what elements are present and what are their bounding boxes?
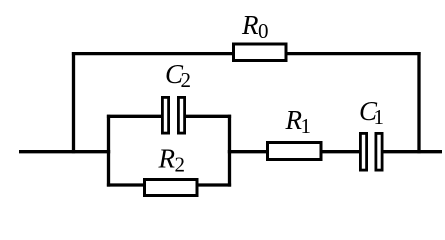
resistor R0 (box in top branch) [234, 44, 287, 61]
wire: main horizontal from C1 right plate to right terminal [382, 150, 442, 153]
wire: main horizontal lead from left terminal to inner parallel block [19, 150, 110, 153]
wire: inner loop left vertical [107, 115, 110, 187]
resistor R2 (box in inner loop bottom branch) [145, 180, 198, 196]
label C1 [359, 96, 384, 129]
label C2 [165, 59, 191, 92]
wire: inner loop top branch left segment into C2 [107, 115, 164, 118]
resistor R1 (box in main line) [268, 143, 322, 160]
label R0 [241, 10, 269, 43]
wire: main horizontal from inner block to C1 left plate (through R1) [228, 150, 361, 153]
capacitor C1 (two hollow plates in main line) [360, 133, 382, 170]
svg-text:R1: R1 [285, 105, 312, 138]
label R2 [158, 144, 186, 177]
wire: outer loop left vertical riser [72, 52, 75, 153]
svg-text:R0: R0 [241, 10, 269, 43]
svg-text:C1: C1 [359, 96, 384, 129]
wire: outer loop right vertical riser [417, 52, 420, 153]
capacitor C2 (two hollow plates in inner loop top branch) [162, 97, 184, 133]
wire: inner loop bottom branch (R2 branch) [107, 183, 231, 186]
wire: inner loop top branch right segment out of C2 [183, 115, 231, 118]
svg-text:C2: C2 [165, 59, 191, 92]
svg-text:R2: R2 [158, 144, 186, 177]
wire: inner loop right vertical [228, 115, 231, 187]
label R1 [285, 105, 312, 138]
wire: outer loop top horizontal (R0 branch) [72, 52, 421, 55]
